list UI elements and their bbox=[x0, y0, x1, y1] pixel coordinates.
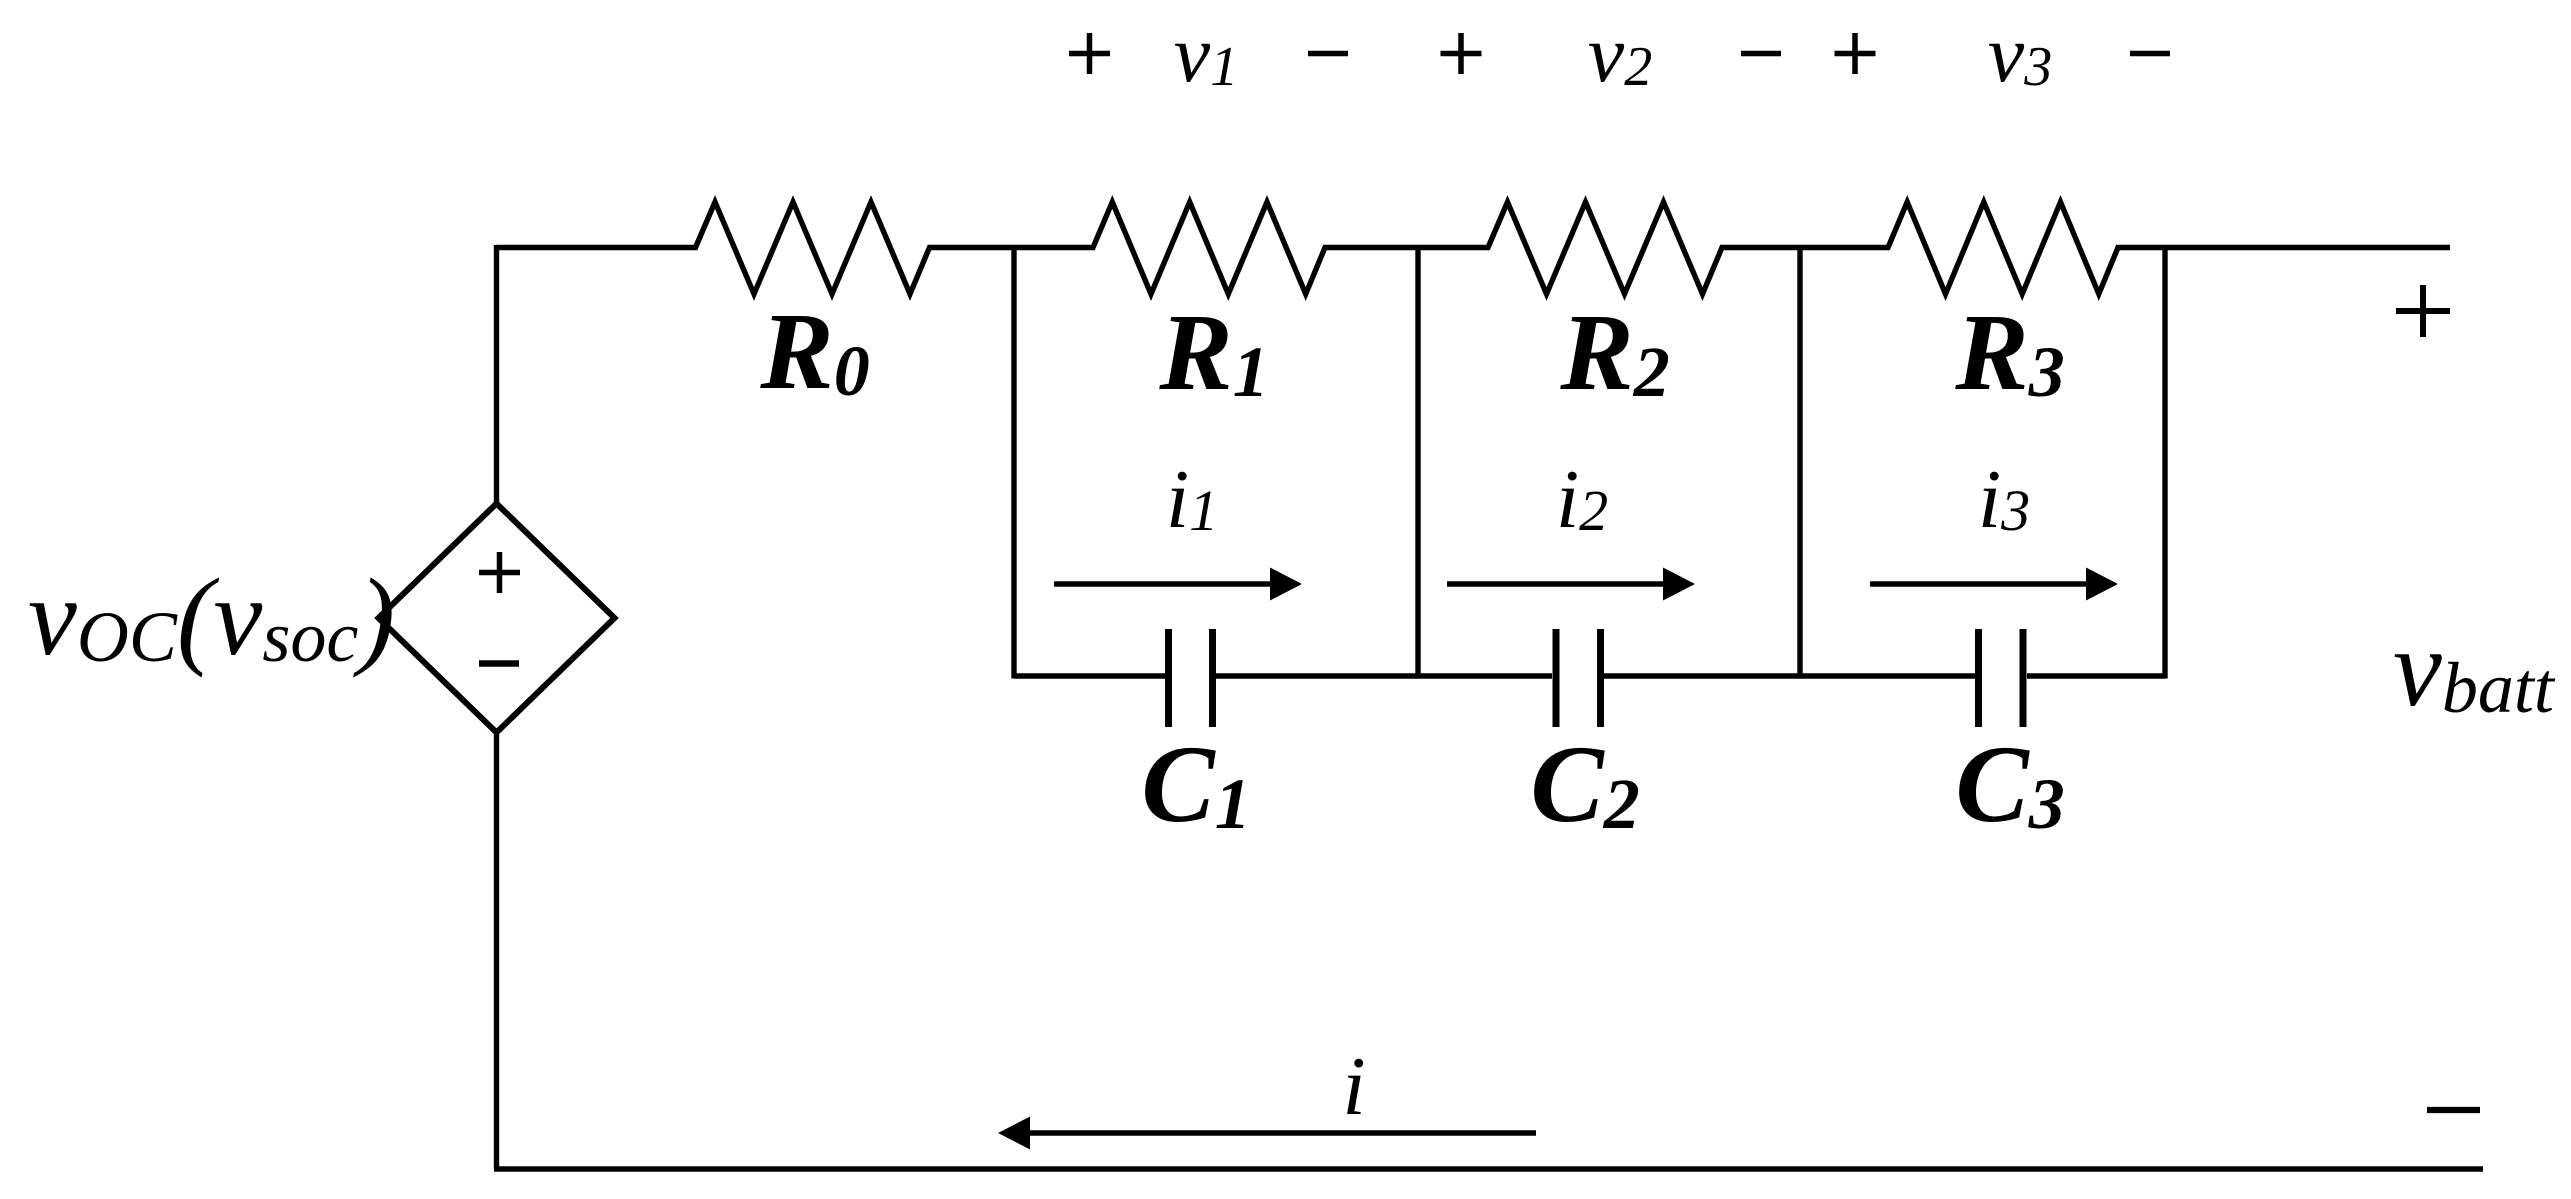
svg-text:i: i bbox=[1342, 1040, 1365, 1133]
